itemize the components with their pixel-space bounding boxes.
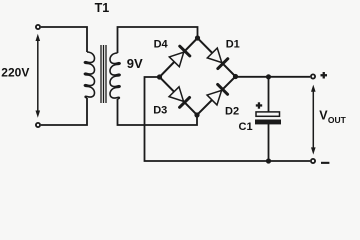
svg-text:D4: D4 — [154, 39, 169, 51]
svg-text:T1: T1 — [95, 1, 110, 15]
svg-text:D3: D3 — [153, 105, 167, 117]
svg-text:9V: 9V — [127, 56, 143, 71]
svg-text:220V: 220V — [1, 66, 29, 80]
svg-text:C1: C1 — [239, 121, 253, 133]
svg-text:OUT: OUT — [328, 115, 347, 125]
svg-text:D2: D2 — [225, 105, 239, 117]
svg-text:V: V — [319, 109, 328, 123]
svg-text:D1: D1 — [226, 39, 240, 51]
